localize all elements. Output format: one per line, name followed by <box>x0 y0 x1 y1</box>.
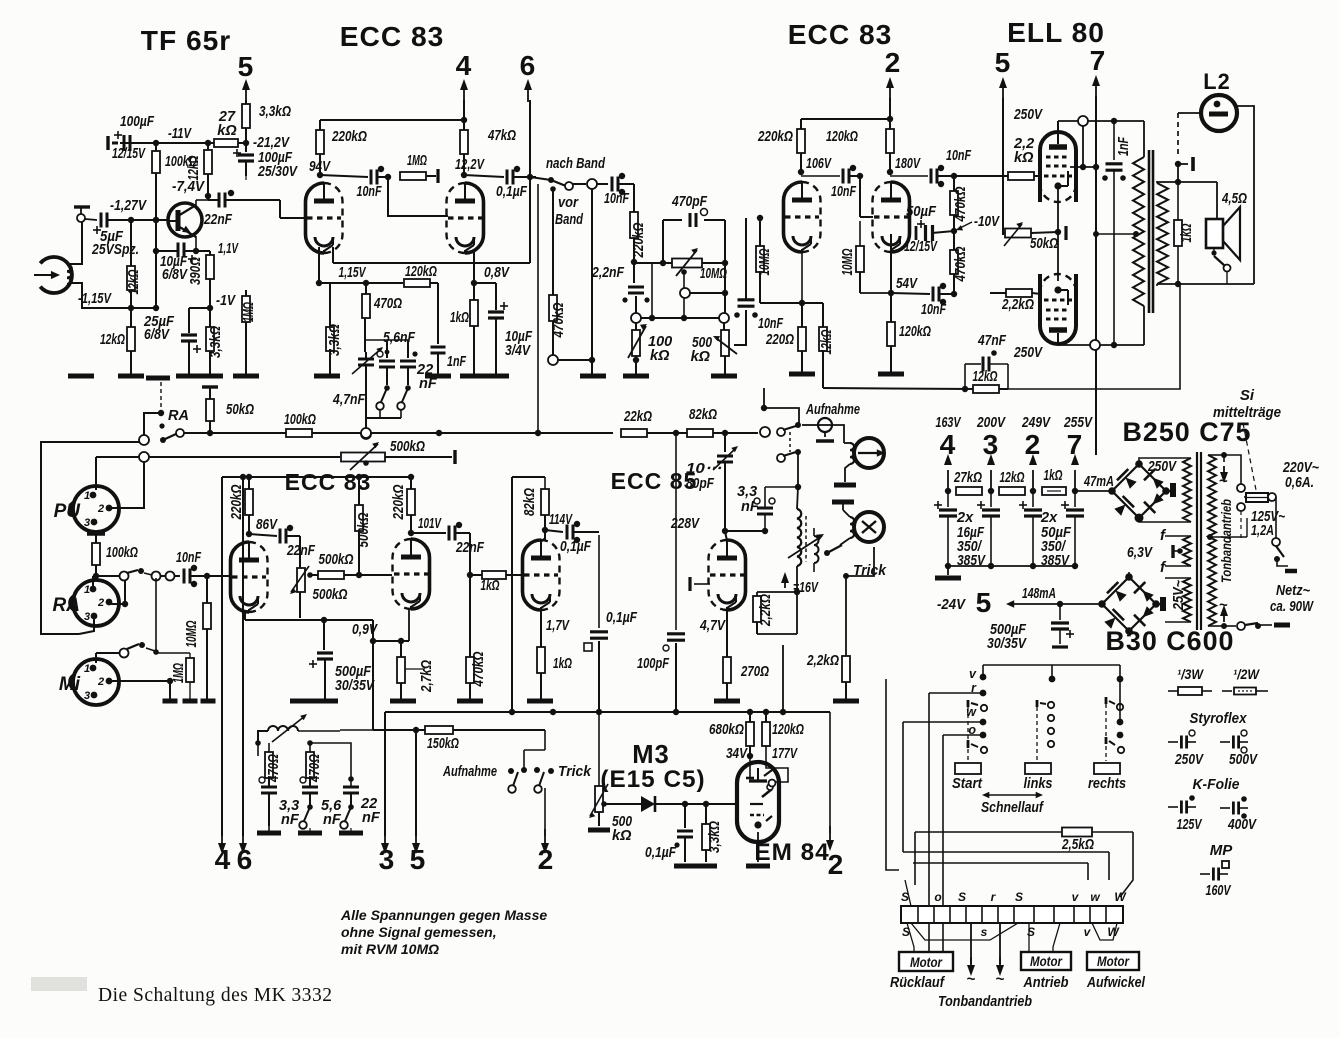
svg-text:ohne Signal gemessen,: ohne Signal gemessen, <box>341 924 497 940</box>
ground <box>314 374 340 379</box>
svg-text:w: w <box>1090 890 1100 904</box>
svg-text:5: 5 <box>976 587 993 618</box>
circles links <box>1048 715 1054 721</box>
ground RA link <box>146 376 170 381</box>
ground <box>233 374 259 379</box>
wire vor band <box>550 186 556 192</box>
resistor 12k r <box>802 302 823 304</box>
svg-text:0,1µF: 0,1µF <box>606 610 638 626</box>
connector circle <box>587 179 597 189</box>
bridge bottom dot <box>1135 514 1144 523</box>
svg-text:30/35V: 30/35V <box>335 678 375 694</box>
svg-text:Motor: Motor <box>910 954 943 970</box>
svg-text:kΩ: kΩ <box>1014 150 1034 166</box>
svg-text:101V: 101V <box>418 516 442 532</box>
svg-text:B250 C75: B250 C75 <box>1122 417 1251 447</box>
capacitor 10nF eq <box>738 298 755 301</box>
svg-text:Rücklauf: Rücklauf <box>890 974 946 991</box>
wire nach band vert <box>537 184 539 433</box>
ground <box>176 374 202 379</box>
svg-text:220Ω: 220Ω <box>765 332 794 348</box>
svg-text:250V: 250V <box>1174 752 1204 768</box>
resistor 1M Mi <box>170 652 190 654</box>
styro cap 250 <box>1168 741 1178 743</box>
em84 target <box>764 770 772 776</box>
motor Ruecklauf <box>899 952 953 971</box>
resistor 100k bus <box>286 429 312 437</box>
resistor 27k psu <box>956 487 982 495</box>
svg-text:12/15V: 12/15V <box>904 239 938 255</box>
wire 2,5k box <box>915 831 1062 833</box>
resistor 100k PU <box>92 543 100 565</box>
svg-text:kΩ: kΩ <box>650 348 670 364</box>
switch aufnahme <box>777 428 785 436</box>
wire right bundle <box>1120 832 1133 897</box>
resistor 2,7k <box>400 641 402 657</box>
psu wire 7 to bridge <box>1075 490 1109 492</box>
wire cath e <box>801 252 803 303</box>
wire 120k em <box>766 746 788 782</box>
svg-text:S: S <box>1027 925 1035 939</box>
capacitor 50uF <box>924 225 927 241</box>
svg-text:10⋅⋅⋅: 10⋅⋅⋅ <box>686 461 721 477</box>
svg-text:0,1µF: 0,1µF <box>560 539 592 555</box>
switch t3 <box>348 804 354 810</box>
schnellauf arrows <box>985 794 1040 796</box>
wire t3 <box>310 743 351 786</box>
svg-text:0,1µF: 0,1µF <box>496 184 528 200</box>
connector <box>548 355 558 365</box>
wire sw <box>1277 559 1288 566</box>
wire bridge bot <box>1139 518 1191 522</box>
ground 50k top <box>202 385 218 388</box>
capacitor 25uF 6/8V <box>189 307 210 309</box>
svg-text:12kΩ: 12kΩ <box>100 332 125 348</box>
svg-text:4,7nF: 4,7nF <box>332 392 366 408</box>
svg-text:Aufnahme: Aufnahme <box>442 764 497 780</box>
svg-text:100kΩ: 100kΩ <box>106 545 138 561</box>
resistor 120k em <box>765 712 767 722</box>
svg-text:1kΩ: 1kΩ <box>450 310 469 326</box>
svg-text:470kΩ: 470kΩ <box>953 186 969 222</box>
svg-text:K-Folie: K-Folie <box>1193 776 1240 793</box>
ground t1 <box>257 831 281 836</box>
feedback down <box>1008 284 1180 389</box>
cap t3 <box>343 786 359 789</box>
osc var arrow <box>788 536 822 558</box>
svg-text:106V: 106V <box>806 156 832 172</box>
ground psu <box>947 566 949 575</box>
svg-text:470kΩ: 470kΩ <box>953 246 969 282</box>
tap top <box>1208 454 1224 456</box>
svg-text:220kΩ: 220kΩ <box>229 484 245 520</box>
cath cap <box>1064 226 1067 240</box>
ground <box>623 374 649 379</box>
wire Mi sw up <box>155 578 157 652</box>
svg-text:2: 2 <box>97 597 104 609</box>
terminal wire 6 <box>242 477 244 836</box>
b30 cap <box>1154 603 1160 605</box>
fuse <box>1246 493 1268 502</box>
ground <box>695 864 717 869</box>
wire Mi pin2 <box>111 680 170 682</box>
svg-text:S: S <box>958 890 966 904</box>
svg-text:W: W <box>1114 890 1127 904</box>
resistor 680k <box>749 712 751 722</box>
svg-text:RA: RA <box>53 595 80 616</box>
connector bot <box>1237 622 1245 630</box>
erase head <box>854 512 884 542</box>
node 228 <box>722 528 728 534</box>
svg-text:100kΩ: 100kΩ <box>284 412 316 428</box>
tap 125 <box>1237 503 1245 511</box>
wire osc fb <box>756 634 777 645</box>
wire row <box>635 322 637 330</box>
svg-text:22nF: 22nF <box>203 212 233 228</box>
svg-text:3: 3 <box>84 611 90 623</box>
winding 25V <box>1183 578 1191 622</box>
osc coil 2 <box>814 536 819 563</box>
capacitor 500uF <box>323 620 325 650</box>
capacitor 1nF <box>431 346 446 349</box>
wire t2 stub <box>309 828 311 831</box>
ground <box>68 374 94 379</box>
wire trick down <box>843 573 849 579</box>
svg-text:10nF: 10nF <box>946 148 972 164</box>
wire PU pin2 <box>111 462 144 508</box>
ground <box>201 699 216 704</box>
resistor 2,5k <box>1062 828 1092 837</box>
wire bot2 <box>1258 624 1272 626</box>
ground <box>483 374 509 379</box>
resistor 27k <box>214 139 238 147</box>
grid cap right <box>744 567 757 569</box>
connector RA <box>139 435 149 445</box>
ELL80a cathode <box>1054 182 1061 189</box>
svg-text:o: o <box>934 890 941 904</box>
capacitor 10nF <box>320 175 368 177</box>
svg-text:2,2nF: 2,2nF <box>591 265 625 281</box>
svg-text:2: 2 <box>97 503 104 515</box>
wire w <box>903 721 983 723</box>
svg-text:120kΩ: 120kΩ <box>772 722 804 738</box>
cap 2x50uF a <box>1032 491 1034 507</box>
tube ECC83d <box>411 539 430 609</box>
svg-text:1nF: 1nF <box>447 354 467 370</box>
cathode f <box>890 234 892 293</box>
bus mid <box>96 575 119 577</box>
output transformer primary <box>1133 157 1144 306</box>
svg-text:Tonbandantrieb: Tonbandantrieb <box>1219 499 1234 583</box>
output transformer secondary <box>1157 183 1168 284</box>
node <box>631 259 637 265</box>
switch 5,6 <box>384 385 390 391</box>
node collector <box>205 193 211 199</box>
ground <box>833 699 859 704</box>
button Start <box>955 763 981 774</box>
svg-text:1: 1 <box>84 490 90 502</box>
resistor 2,2k g2 <box>990 292 1006 294</box>
svg-text:10MΩ: 10MΩ <box>184 620 200 647</box>
wire psu <box>1066 490 1075 492</box>
wire <box>573 183 586 185</box>
connector <box>631 313 641 323</box>
svg-text:220V~: 220V~ <box>1282 460 1319 476</box>
svg-text:4: 4 <box>215 844 232 875</box>
capacitor 0,1uF m3 <box>684 804 686 828</box>
connector eq <box>361 429 371 439</box>
resistor 2,2k g1 <box>990 175 1008 177</box>
svg-text:177V: 177V <box>772 746 798 762</box>
wire feed L <box>764 408 799 425</box>
connector fuse l <box>1237 484 1245 492</box>
svg-text:6/8V: 6/8V <box>162 267 188 283</box>
wire -24V <box>1012 603 1102 605</box>
connector Mi <box>73 659 119 705</box>
svg-text:Schnellauf: Schnellauf <box>981 800 1045 816</box>
wire 680k em <box>749 756 751 778</box>
contact rechts2 <box>1105 737 1108 744</box>
arrow tonband1 <box>970 923 972 964</box>
wire RA dashed <box>160 382 162 411</box>
svg-text:10nF: 10nF <box>921 302 947 318</box>
switch trick <box>840 538 850 545</box>
svg-text:10MΩ: 10MΩ <box>700 266 727 282</box>
svg-text:Motor: Motor <box>1030 953 1063 969</box>
svg-text:160V: 160V <box>1206 883 1232 899</box>
svg-text:120kΩ: 120kΩ <box>405 264 437 280</box>
ground t2 <box>298 831 322 836</box>
svg-text:1nF: 1nF <box>1116 136 1132 156</box>
wire left loop <box>41 442 139 634</box>
node <box>158 410 164 416</box>
wire spk sw <box>1213 248 1215 253</box>
svg-text:2,7kΩ: 2,7kΩ <box>419 659 435 692</box>
svg-text:Netz~: Netz~ <box>1276 583 1310 599</box>
resistor 2,2k trick <box>842 656 850 682</box>
svg-text:250V: 250V <box>1147 459 1177 475</box>
svg-text:Band: Band <box>555 212 584 228</box>
node <box>385 174 391 180</box>
node 12,2V <box>461 172 467 178</box>
capacitor 10nF mid <box>183 569 186 584</box>
svg-text:47kΩ: 47kΩ <box>487 128 516 144</box>
svg-text:ECC 85: ECC 85 <box>611 468 698 494</box>
svg-text:2x: 2x <box>956 510 974 526</box>
psu gnd bus <box>948 565 1075 567</box>
connector mid2 <box>166 572 175 581</box>
strip feeds <box>928 885 930 906</box>
svg-text:500kΩ: 500kΩ <box>390 439 426 455</box>
ground <box>163 699 178 704</box>
wire <box>597 183 608 185</box>
resistor 12k lower <box>130 308 132 327</box>
wire 385 <box>384 712 386 730</box>
svg-text:86V: 86V <box>256 517 278 533</box>
connector stem <box>683 272 685 289</box>
row 318 <box>641 317 720 319</box>
ground <box>714 699 740 704</box>
ground <box>580 374 606 379</box>
rail 119 <box>801 118 890 120</box>
erase top wire <box>843 510 850 517</box>
svg-text:2,2kΩ: 2,2kΩ <box>1001 297 1034 313</box>
wire wiper m3 <box>601 801 607 807</box>
wire bridge top <box>1139 458 1191 464</box>
mains transformer core <box>1196 452 1198 630</box>
arrow tonband2 <box>999 923 1001 964</box>
resistor 100k vert <box>155 143 157 151</box>
resistor 220R <box>801 303 803 327</box>
switch t2 <box>307 804 313 810</box>
ground <box>457 699 483 704</box>
lamp cap <box>1175 161 1181 167</box>
node bot7 <box>1095 344 1097 346</box>
svg-text:47nF: 47nF <box>977 333 1007 349</box>
tube ECC85b <box>727 540 746 610</box>
svg-text:82kΩ: 82kΩ <box>689 407 718 423</box>
svg-text:kΩ: kΩ <box>691 349 711 365</box>
wire wiper to 10nF <box>734 310 746 345</box>
motor Antrieb <box>1021 952 1071 970</box>
svg-text:ECC 83: ECC 83 <box>340 21 445 52</box>
svg-text:Antrieb: Antrieb <box>1023 974 1069 991</box>
ELL80a plate <box>1049 144 1067 150</box>
pot 500k flat <box>341 453 385 462</box>
svg-text:nF: nF <box>419 376 438 392</box>
cathode bus <box>244 612 246 620</box>
svg-text:470kΩ: 470kΩ <box>471 651 487 687</box>
capacitor 0,1uF <box>464 175 504 177</box>
wire -11V rail <box>120 142 246 144</box>
wire PU pin1 <box>95 457 97 490</box>
svg-text:2: 2 <box>828 849 845 880</box>
svg-text:kΩ: kΩ <box>612 828 632 844</box>
resistor 12k psu <box>999 487 1025 495</box>
resistor 150k <box>425 726 453 734</box>
wire sec top <box>1157 181 1217 183</box>
svg-text:-1V: -1V <box>216 293 236 309</box>
svg-text:-11V: -11V <box>168 126 192 142</box>
wire bot <box>1224 625 1236 627</box>
node 180 <box>887 169 893 175</box>
svg-text:6/8V: 6/8V <box>144 327 170 343</box>
ground <box>460 374 486 379</box>
svg-text:120kΩ: 120kΩ <box>899 324 931 340</box>
resistor 22k <box>621 429 647 437</box>
dashed link <box>789 432 791 452</box>
anode circle top <box>1078 116 1088 126</box>
capacitor 10nF r <box>800 172 802 176</box>
svg-text:30/35V: 30/35V <box>987 636 1027 652</box>
ground <box>390 699 416 704</box>
node <box>467 572 473 578</box>
svg-text:1MΩ: 1MΩ <box>407 153 427 169</box>
svg-text:25/30V: 25/30V <box>257 164 298 180</box>
cap 2x16uF b <box>990 491 992 507</box>
node 6 <box>527 174 533 180</box>
wire stub <box>112 142 118 145</box>
svg-text:nF: nF <box>281 812 300 828</box>
node -21,2V <box>243 140 249 146</box>
svg-text:-1,27V: -1,27V <box>110 198 147 214</box>
pot 500k fb <box>297 568 305 592</box>
capacitor 500uF psu <box>1059 604 1061 620</box>
ground <box>183 699 198 704</box>
svg-text:82kΩ: 82kΩ <box>522 487 538 516</box>
svg-text:220kΩ: 220kΩ <box>757 129 793 145</box>
kfolie 125 <box>1168 806 1178 808</box>
switch bot <box>1245 622 1257 626</box>
resistor 270 <box>723 657 731 683</box>
wire tap top <box>1224 455 1241 484</box>
svg-text:mit RVM 10MΩ: mit RVM 10MΩ <box>341 941 439 957</box>
svg-text:Start: Start <box>952 776 983 792</box>
vert 2 <box>544 788 546 836</box>
svg-text:12kΩ: 12kΩ <box>126 269 142 294</box>
smudge <box>31 977 87 991</box>
tube ECC85a <box>523 540 542 610</box>
capacitor 4,7nF var <box>358 358 374 361</box>
svg-text:0,6A.: 0,6A. <box>1285 475 1314 491</box>
svg-text:500kΩ: 500kΩ <box>313 587 349 603</box>
svg-text:6,3V: 6,3V <box>1127 545 1153 561</box>
tube ECC83f <box>891 182 910 252</box>
svg-text:nF: nF <box>323 812 342 828</box>
button links <box>1025 763 1051 774</box>
pot 500k m3 <box>598 712 600 770</box>
connector busA end <box>760 427 770 437</box>
resistor 82k <box>541 538 545 542</box>
ground t3 <box>339 831 363 836</box>
resistor 120k eq <box>404 279 430 287</box>
resistor 470 t1 <box>265 752 273 778</box>
ELL80b grids <box>1046 318 1070 321</box>
svg-text:2: 2 <box>538 844 555 875</box>
pot 500k osc <box>723 322 725 330</box>
capacitor 1nF out <box>1111 118 1117 124</box>
svg-text:22nF: 22nF <box>286 543 316 559</box>
svg-text:220kΩ: 220kΩ <box>331 129 367 145</box>
trimmer 10-80p <box>724 433 726 452</box>
svg-text:mittelträge: mittelträge <box>1213 404 1281 421</box>
var inductor <box>268 726 298 731</box>
mains primary <box>1208 455 1216 626</box>
contact start1 <box>967 700 970 707</box>
node 100k <box>153 217 159 223</box>
svg-text:~: ~ <box>967 971 976 988</box>
svg-text:1: 1 <box>84 584 90 596</box>
capacitor 10uF 3/4V <box>474 282 496 284</box>
connector fuse r <box>1268 493 1276 501</box>
resistor 1k cath2 <box>473 283 475 300</box>
svg-text:12kΩ: 12kΩ <box>819 329 835 354</box>
svg-text:Si: Si <box>1240 387 1255 404</box>
svg-text:250V: 250V <box>1013 107 1043 123</box>
record head <box>854 438 884 468</box>
pot gnd <box>300 592 302 700</box>
trapezoid bottom <box>911 923 1018 940</box>
capacitor 22nF <box>218 193 221 208</box>
ground <box>527 699 553 704</box>
wire em84 gnd <box>757 832 759 862</box>
switch aufb <box>508 768 514 774</box>
capacitor 22nF fb2 <box>411 532 446 534</box>
svg-text:114V: 114V <box>549 512 573 528</box>
svg-text:1MΩ: 1MΩ <box>171 663 187 683</box>
wire RA pin3 <box>79 618 94 634</box>
cathode1 node <box>316 280 322 286</box>
